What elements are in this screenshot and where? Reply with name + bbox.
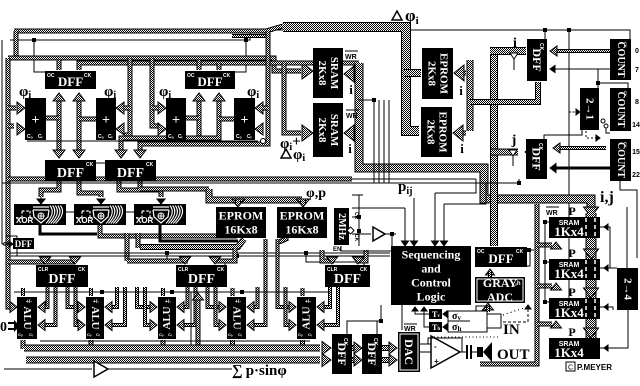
wire logic to DAC	[401, 305, 403, 330]
svg-text:IN: IN	[503, 322, 520, 338]
svg-text:+: +	[102, 113, 110, 128]
svg-text:Cᵢ: Cᵢ	[238, 332, 242, 337]
bus left edge feed stub to +A1	[8, 124, 14, 129]
svg-text:COUNT: COUNT	[615, 91, 626, 127]
DFF D register row2	[105, 160, 156, 181]
terminal funnel under label j	[509, 150, 517, 156]
bus DFF pair link upper	[352, 345, 356, 351]
svg-text:Cᵢ: Cᵢ	[168, 332, 172, 337]
bus X1 EPROM address vertical	[467, 60, 474, 131]
svg-text:Cᵢ: Cᵢ	[247, 134, 252, 140]
wires DFF clocks bottom	[347, 321, 381, 334]
svg-text:C: C	[568, 365, 573, 372]
EPROM 2Kx8 no.1	[422, 48, 453, 99]
bus DFF pair link lower	[352, 357, 356, 363]
arrow into SRAM 2Kx8 no.2 left	[302, 125, 313, 141]
arrow X1 into EPROM 2Kx8 no.1 address	[462, 71, 466, 76]
svg-text:DFF: DFF	[530, 48, 544, 71]
svg-text:CK: CK	[3, 242, 11, 248]
bus from count1 to DFF i narrow	[553, 49, 610, 53]
arrow into SRAM 1Kx4 no.2	[584, 249, 599, 259]
svg-text:XOR: XOR	[136, 216, 154, 225]
svg-text:DFF: DFF	[15, 239, 33, 249]
wire 2to1 output dashes	[586, 131, 597, 138]
bus lower row y247 to EPROM1 bottom elbow	[140, 239, 244, 247]
svg-text:DFF: DFF	[197, 74, 222, 89]
svg-text:+/-: +/-	[26, 299, 32, 305]
wire CK drops to DFF row3 clocks	[166, 253, 168, 262]
wire bottom clock run with buffer	[4, 368, 88, 370]
svg-text:CK: CK	[360, 267, 368, 273]
bus arm BV5 to DFF i input	[490, 47, 526, 55]
DFF register near ADC	[475, 247, 527, 267]
COUNT counter no.2	[610, 88, 631, 131]
svg-text:+: +	[172, 113, 180, 128]
arrow into ALU1 left	[10, 302, 17, 313]
svg-text:∑ p·sinφ: ∑ p·sinφ	[232, 363, 287, 379]
bus top trunk A (to delta-phi-i)	[14, 26, 283, 31]
bus cluster B output to top band	[232, 34, 268, 38]
XOR gate X1	[14, 204, 66, 225]
arrow into DFF row3 no.1 right	[70, 257, 81, 264]
svg-text:WR: WR	[404, 326, 416, 333]
wire phi,p label drop	[352, 194, 363, 196]
svg-text:1Kx4: 1Kx4	[554, 305, 584, 320]
wire op-amp output and capacitor	[460, 351, 467, 353]
copyright P.MEYER	[566, 362, 575, 371]
terminal funnel under label i	[510, 53, 518, 59]
svg-text:2Kx8: 2Kx8	[316, 60, 328, 86]
wire y193 to sequencing	[435, 179, 476, 193]
svg-text:P.MEYER: P.MEYER	[577, 363, 612, 372]
wire W1 drop select line long vertical	[568, 30, 570, 318]
top clock wire W1	[10, 30, 630, 40]
bus stub +A2 output to vertical	[79, 117, 96, 122]
arrow into DFF D top left	[115, 150, 127, 158]
svg-text:Cᵢ: Cᵢ	[29, 332, 33, 337]
bus third level B2 to address trunk	[79, 63, 359, 70]
wire chain XOR2-XOR3	[126, 211, 134, 213]
bus DFF i output loop to EPROM address bus	[470, 82, 538, 102]
wire CK DFF output down	[16, 248, 18, 256]
adder +B2	[234, 98, 255, 140]
wire y179 continuation	[350, 178, 476, 180]
wire COUNT3 bottom to right edge	[620, 181, 637, 258]
arrow into +B1 lower	[158, 123, 166, 135]
arrow i,j bus into SRAM 1Kx4 no.1	[584, 207, 599, 217]
speaker symbol	[477, 347, 483, 357]
thin wire row y253 with junctions	[10, 252, 390, 254]
SRAM 2Kx8 no.2	[313, 103, 343, 157]
svg-text:CK: CK	[353, 234, 359, 242]
svg-text:DAC: DAC	[402, 339, 416, 365]
wire arrow into XOR3 top	[157, 199, 165, 204]
op-amp triangle	[431, 336, 460, 368]
DFF row3 no.3	[325, 265, 370, 287]
svg-text:+/-: +/-	[235, 299, 241, 305]
svg-text:1Kx4: 1Kx4	[554, 345, 584, 360]
ALU no.5	[297, 297, 316, 339]
bus stub +B2 output to left vertical	[219, 117, 234, 122]
svg-text:Cₒ: Cₒ	[228, 332, 233, 337]
bus drops into DFF row3 no.3	[322, 250, 334, 261]
bus feed +B1	[152, 58, 158, 126]
svg-text:CK: CK	[538, 43, 544, 51]
bus DFF D right output down to long bus	[138, 181, 143, 189]
svg-text:CLR: CLR	[38, 267, 49, 273]
bus stubs top bus into DFF B top	[197, 60, 202, 70]
svg-text:i: i	[459, 83, 463, 98]
svg-text:i: i	[513, 36, 517, 51]
small clock DFF	[13, 238, 34, 249]
wire W1 drop to DFF A clock	[34, 40, 45, 72]
switch circles between 2to1 and COUNT2	[601, 119, 605, 123]
bus SRAM 1Kx4 column address bus	[586, 213, 597, 352]
wire SRAM4 right to 2to4	[600, 310, 628, 348]
wire i,j to 2to4	[626, 207, 628, 268]
svg-text:CK: CK	[353, 212, 359, 220]
T sample box h	[429, 322, 442, 332]
svg-text:-: -	[434, 342, 437, 351]
svg-text:EPROM: EPROM	[280, 209, 325, 223]
thick wire COUNT3 to DFF j	[553, 167, 610, 170]
bus DFF2 to DAC lower	[382, 357, 390, 363]
XOR gate X3	[134, 204, 186, 225]
arrow into SRAM 1Kx4 no.4	[584, 328, 599, 338]
arrow into EPROM 16Kx8 no.2 top	[297, 199, 310, 207]
svg-text:DFF: DFF	[488, 251, 513, 266]
svg-text:DFF: DFF	[58, 74, 83, 89]
arrow into +A1 upper	[17, 102, 25, 114]
svg-text:CK: CK	[84, 73, 92, 79]
wire dashed select into 2to1	[569, 111, 576, 113]
bus corner into DFF row3 no.2 right	[215, 248, 235, 261]
wire 2MHz CK net vertical	[358, 195, 360, 246]
arrow into EPROM 16Kx8 no.1 top	[232, 199, 245, 207]
bus DFF row3 to ALU verticals with arrows	[42, 287, 48, 307]
bus top second level B	[8, 58, 301, 71]
sum output trunk upper	[24, 345, 320, 352]
arrow into DFF bottom pair no.1 lower	[322, 354, 331, 367]
svg-text:CK: CK	[86, 162, 94, 168]
SRAM 1Kx4 no.2	[549, 259, 600, 281]
junction dot y183	[517, 181, 521, 185]
arrow into DFF A bottom right	[73, 93, 85, 101]
svg-text:and: and	[421, 262, 441, 276]
SRAM 2Kx8 no.1	[313, 48, 343, 98]
svg-text:CK: CK	[146, 162, 154, 168]
svg-text:2→1: 2→1	[584, 98, 596, 120]
ALU no.2	[86, 297, 104, 339]
wire SRAM1 right to 2to4	[600, 227, 610, 268]
wire COUNT1 lower output to DFF i	[552, 68, 610, 70]
svg-text:EPROM: EPROM	[438, 53, 450, 95]
wire adder carry chain Co-Ci	[27, 140, 258, 142]
svg-text:i: i	[460, 141, 464, 156]
svg-text:DFF: DFF	[334, 272, 361, 287]
DFF C register row2	[45, 160, 96, 181]
svg-text:ALU: ALU	[21, 306, 33, 329]
DAC block	[398, 332, 420, 372]
GRAY ADC block	[475, 276, 525, 304]
wire arrow into XOR1 top	[37, 199, 45, 204]
sum output trunk lower	[26, 357, 320, 364]
wire W1 drop to DFF i clock	[544, 30, 546, 39]
wires into Sequencing box top	[404, 208, 406, 242]
bus loop into DFF row3 no.2 top	[127, 259, 188, 264]
wire 2MHz EN	[341, 246, 392, 251]
bus top trunk A widened segment and delta-phi-i vertical trunk	[283, 27, 419, 131]
svg-text:ALU: ALU	[301, 306, 313, 329]
svg-text:14: 14	[632, 122, 640, 129]
2to1 multiplexer	[580, 88, 599, 130]
junction W1-2to1	[567, 28, 571, 32]
wire ALU carry chain bottom	[40, 340, 310, 342]
bus group A vertical no.1 (+A out to DFF A / DFF C)	[57, 95, 62, 155]
DFF j register vertical	[526, 139, 547, 179]
svg-text:CK: CK	[217, 267, 225, 273]
svg-text:CK: CK	[223, 73, 231, 79]
dotted line lower	[434, 336, 500, 338]
bus nested connector top left	[14, 31, 19, 58]
ALU no.3	[158, 297, 176, 339]
DFF row3 no.2	[176, 265, 227, 287]
COUNT counter no.1	[610, 39, 631, 80]
arrow into DFF j right	[553, 143, 560, 153]
svg-text:DFF: DFF	[48, 272, 75, 287]
svg-text:j: j	[511, 133, 517, 148]
svg-text:DFF: DFF	[57, 166, 84, 181]
wire W1 drop to DFF B clock	[235, 40, 246, 72]
svg-text:Cᵢ: Cᵢ	[178, 134, 183, 140]
bus group B cross link down to DFF D	[121, 125, 219, 152]
bus ALU5 right feeds	[321, 287, 330, 307]
arrow into +B2 lower	[255, 123, 263, 135]
svg-text:P: P	[568, 325, 575, 339]
svg-text:DFF: DFF	[117, 166, 144, 181]
bus stub trunk into EPROM 2Kx8 no.1 data	[404, 69, 421, 77]
svg-text:CLR: CLR	[178, 267, 189, 273]
DFF A register	[45, 71, 96, 89]
junction W1-DFF i	[543, 28, 547, 32]
svg-text:22: 22	[632, 172, 640, 179]
XOR gate X2	[74, 204, 126, 225]
svg-text:Cᵢ: Cᵢ	[308, 332, 312, 337]
junction W1-DFF A	[32, 38, 36, 42]
bus group A vertical no.2	[77, 95, 82, 155]
svg-text:P: P	[568, 285, 575, 299]
arrow X2 into SRAM 2Kx8 no.2 address	[350, 131, 354, 136]
svg-text:2Kx8: 2Kx8	[426, 61, 438, 87]
2to4 demultiplexer	[617, 268, 638, 310]
ALU no.4	[227, 297, 246, 339]
svg-text:i: i	[349, 82, 353, 97]
svg-text:ALU: ALU	[231, 306, 243, 329]
svg-text:2MHz: 2MHz	[336, 213, 347, 240]
ALU no.1	[17, 297, 37, 339]
svg-text:8: 8	[635, 99, 639, 106]
wire DFF CK to ADC	[526, 250, 530, 266]
T sample box v	[429, 309, 442, 319]
svg-text:φ,p: φ,p	[306, 186, 326, 201]
bus ALU outputs down to sum trunk	[21, 340, 26, 349]
wires WR write-lines crossing trunk	[373, 100, 375, 183]
wire DAC to op-amp	[420, 351, 431, 353]
svg-text:Cᵢ: Cᵢ	[96, 332, 100, 337]
svg-text:Cₒ: Cₒ	[236, 134, 242, 140]
svg-text:2Kx8: 2Kx8	[425, 119, 437, 145]
bus arms into SRAM bottoms	[537, 243, 552, 248]
svg-text:EPROM: EPROM	[219, 209, 264, 223]
svg-text:i: i	[348, 141, 352, 156]
arrow sample into GRAY ADC bottom	[483, 303, 494, 310]
arrow into +A2 upper	[116, 102, 124, 114]
thin wire row y256	[10, 255, 390, 257]
svg-text:7: 7	[635, 67, 639, 74]
EPROM 16Kx8 no.1	[216, 207, 266, 238]
svg-text:0: 0	[635, 48, 639, 55]
svg-text:XOR: XOR	[76, 216, 94, 225]
long bus row y187-192	[140, 187, 209, 192]
bus left edge vertical main	[6, 58, 11, 302]
DFF bottom pair no.2	[362, 334, 382, 374]
EPROM 2Kx8 no.2	[421, 107, 452, 157]
svg-text:DFF: DFF	[530, 147, 544, 170]
svg-text:1Kx4: 1Kx4	[554, 266, 584, 281]
buffer triangle on bottom wire	[94, 361, 108, 377]
DFF i register vertical	[527, 39, 547, 81]
svg-text:1Kx4: 1Kx4	[554, 224, 584, 239]
svg-text:CK: CK	[372, 338, 378, 346]
thick wire XOR3 output	[160, 224, 238, 241]
svg-text:Sequencing: Sequencing	[402, 248, 461, 262]
svg-text:Cₒ: Cₒ	[87, 332, 92, 337]
arrow into DFF i right	[550, 46, 557, 56]
svg-text:+: +	[241, 113, 249, 128]
svg-text:SRAM: SRAM	[328, 57, 340, 90]
dotted diagonal	[503, 308, 524, 315]
junction W1-DFF B	[244, 38, 248, 42]
svg-text:WR: WR	[546, 210, 558, 217]
arrow into DFF row3 no.3 right	[353, 257, 364, 264]
arrow sum trunk into DFF bottom pair no.1 upper	[322, 342, 331, 355]
EPROM 16Kx8 no.2	[277, 207, 327, 238]
arrow ADC to DFF	[486, 269, 495, 275]
bus branch verticals to DFF row3 no.2	[125, 233, 130, 261]
wire WR chain SRAM column	[544, 222, 546, 302]
wire SRAM3 right to 2to4	[600, 307, 613, 310]
svg-text:CK: CK	[516, 249, 524, 255]
wire DFF C to DFF D	[96, 162, 105, 164]
arrow into +B1 upper	[158, 102, 166, 114]
bus DFF D outputs down to XOR2/XOR3	[119, 181, 161, 197]
bus stubs top bus into DFF A top	[57, 60, 62, 70]
svg-text:Cₒ: Cₒ	[298, 332, 303, 337]
svg-text:2→4: 2→4	[622, 278, 634, 301]
svg-text:ADC: ADC	[487, 290, 513, 304]
svg-text:Cᵢ: Cᵢ	[38, 134, 43, 140]
SRAM 1Kx4 no.4	[549, 338, 600, 360]
wire SRAM2 right to 2to4	[600, 267, 617, 269]
arrow into DFF D top right	[134, 150, 146, 158]
svg-text:Cₒ: Cₒ	[18, 332, 23, 337]
svg-text:OC: OC	[47, 73, 55, 79]
wire op-amp feedback	[428, 338, 462, 352]
svg-text:2Kx8: 2Kx8	[316, 117, 328, 143]
bus COUNT3 to DFF j narrow	[556, 146, 606, 150]
Sequencing and Control Logic block	[391, 246, 471, 305]
arrow into DFF B bottom left	[193, 93, 205, 101]
wire left edge vertical 1	[2, 40, 10, 244]
svg-text:CK: CK	[623, 42, 628, 48]
sample hold sigma block	[448, 311, 487, 332]
SRAM 1Kx4 no.1	[549, 217, 600, 239]
svg-text:DFF: DFF	[365, 342, 379, 365]
svg-text:+/-: +/-	[93, 299, 99, 305]
svg-text:GRAY: GRAY	[483, 276, 518, 290]
bus XOR2 output to EPROM16K underside	[100, 224, 241, 236]
svg-text:15: 15	[632, 149, 640, 156]
svg-text:+/-: +/-	[305, 299, 311, 305]
arrow into DFF j	[525, 146, 533, 159]
bus group B vertical no.2	[217, 95, 222, 125]
wire sigma top to ADC feed	[476, 306, 490, 311]
svg-text:Control: Control	[411, 276, 451, 290]
DFF row3 no.1	[36, 265, 88, 287]
arrow into +B2 upper	[255, 102, 263, 114]
svg-text:⌟h: ⌟h	[514, 281, 521, 287]
arrow into DFF B bottom right	[213, 93, 225, 101]
arrow into DFF row3 no.2 left	[180, 257, 191, 264]
svg-text:WR: WR	[345, 54, 357, 61]
svg-text:+: +	[434, 357, 439, 366]
wire COUNT1 pin to 2to1 and COUNT2 clocks	[597, 69, 599, 88]
svg-text:16Kx8: 16Kx8	[224, 223, 257, 237]
svg-text:CK: CK	[78, 267, 86, 273]
svg-text:Cᵢ: Cᵢ	[108, 134, 113, 140]
thick wire XOR1 output	[40, 224, 97, 234]
svg-text:XOR: XOR	[16, 216, 34, 225]
arrow into SRAM 2Kx8 no.1 left	[302, 63, 313, 79]
svg-text:Cₒ: Cₒ	[168, 134, 174, 140]
svg-text:ALU: ALU	[161, 306, 173, 329]
bus DFF C outputs down to XOR1/XOR2	[41, 181, 59, 197]
bus feed to +A2 right side	[124, 58, 130, 135]
arrow into DFF row3 no.3 left	[327, 257, 338, 264]
svg-text:Logic: Logic	[417, 290, 446, 304]
bus EPROM2 bottom elbow to vertical	[279, 236, 286, 242]
svg-text:P: P	[568, 204, 575, 218]
wire from 2MHz to sequencing	[352, 207, 405, 209]
oscillator 2MHz	[334, 208, 349, 245]
arrow X1 into EPROM 2Kx8 no.2 address	[462, 131, 466, 136]
wire into buffer triangle	[352, 233, 371, 235]
bus B2 drop to SRAM 2Kx8 no.2 data in	[284, 63, 301, 133]
wires T boxes to logic	[415, 309, 429, 314]
label delta-phi-i top	[392, 11, 402, 20]
arrow into DFF row3 no.2 right	[210, 257, 221, 264]
svg-text:EN: EN	[333, 247, 341, 253]
svg-text:Cₒ: Cₒ	[27, 134, 33, 140]
adder +A2	[96, 98, 116, 140]
wire y204 to sequencing	[444, 183, 486, 204]
open dot carry out	[261, 139, 266, 144]
arrow into DFF A bottom left	[53, 93, 65, 101]
bus stub +A1 output to vertical	[46, 116, 59, 121]
svg-text:0: 0	[0, 320, 7, 335]
arrow into DFF row3 no.1 left	[40, 257, 51, 264]
svg-text:ALU: ALU	[89, 306, 101, 329]
